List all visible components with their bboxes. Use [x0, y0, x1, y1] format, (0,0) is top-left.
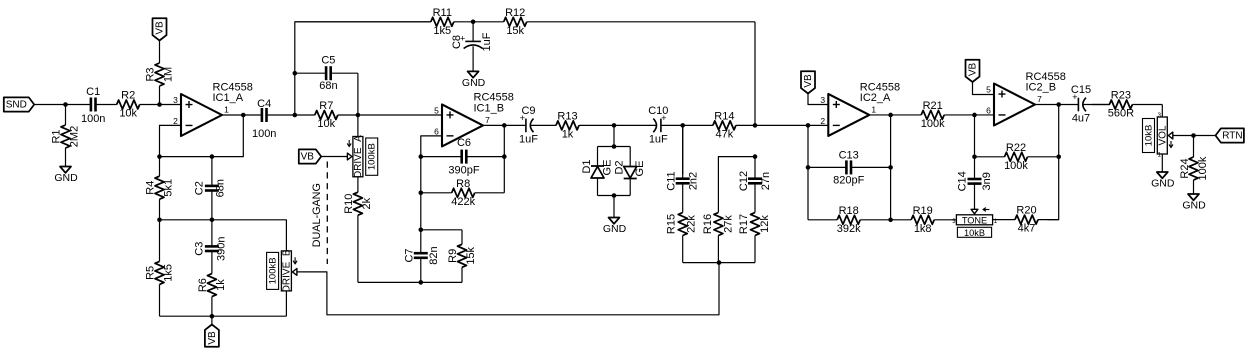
capacitor C11 — [666, 125, 700, 212]
junction — [502, 123, 507, 128]
svg-text:392k: 392k — [837, 223, 861, 235]
resistor R22 — [975, 142, 1059, 172]
dual-gang link — [311, 162, 327, 265]
svg-text:VB: VB — [155, 21, 166, 35]
svg-text:7: 7 — [485, 115, 490, 125]
svg-text:R13: R13 — [557, 110, 577, 122]
wire — [1047, 105, 1058, 220]
svg-text:1uF: 1uF — [649, 133, 668, 145]
junction — [419, 191, 424, 196]
capacitor C7 — [403, 230, 440, 283]
junction — [612, 123, 617, 128]
junction — [210, 314, 215, 319]
wire — [808, 94, 828, 105]
wire — [295, 22, 431, 115]
svg-text:RTN: RTN — [1222, 131, 1242, 142]
svg-text:1k5: 1k5 — [163, 264, 175, 282]
power tag VB — [801, 71, 815, 93]
wire — [683, 262, 755, 264]
wire — [321, 156, 347, 158]
resistor R21 — [891, 100, 975, 130]
capacitor C9 — [504, 105, 556, 145]
junction — [356, 113, 361, 118]
junction — [1191, 133, 1196, 138]
potentiometer DRIVE_B — [267, 249, 298, 292]
svg-text:1: 1 — [224, 105, 229, 115]
resistor R13 — [556, 110, 614, 140]
svg-text:R4: R4 — [145, 181, 157, 195]
junction — [717, 260, 722, 265]
svg-text:GND: GND — [603, 223, 627, 235]
svg-text:10kB: 10kB — [1144, 125, 1155, 147]
pin numbers VOL — [1158, 113, 1162, 159]
svg-text:C6: C6 — [457, 137, 471, 149]
wire — [211, 316, 213, 324]
svg-text:2M2: 2M2 — [69, 126, 81, 147]
svg-text:10k: 10k — [317, 118, 335, 130]
svg-text:GND: GND — [1182, 200, 1206, 212]
svg-text:1k: 1k — [215, 279, 227, 291]
tag SND — [4, 97, 34, 111]
resistor R2 — [96, 90, 160, 120]
wire — [754, 22, 756, 126]
svg-text:C14: C14 — [957, 171, 969, 191]
junction — [806, 123, 811, 128]
junction — [293, 71, 298, 76]
svg-text:6: 6 — [986, 105, 991, 115]
wire — [598, 146, 631, 148]
svg-text:R23: R23 — [1111, 90, 1131, 102]
svg-text:C7: C7 — [403, 248, 415, 262]
svg-text:R3: R3 — [145, 67, 157, 81]
junction — [888, 113, 893, 118]
resistor R1 — [51, 105, 81, 167]
wire — [160, 315, 287, 317]
svg-text:12k: 12k — [759, 215, 771, 233]
svg-text:100n: 100n — [81, 113, 105, 125]
svg-text:SND: SND — [6, 100, 27, 111]
junction — [293, 113, 298, 118]
junction — [63, 102, 68, 107]
tag RTN — [1216, 128, 1244, 142]
svg-text:R22: R22 — [1006, 142, 1026, 154]
capacitor C6 — [421, 137, 505, 177]
svg-text:100kB: 100kB — [367, 143, 378, 170]
ground — [462, 71, 486, 89]
svg-text:100k: 100k — [1197, 156, 1209, 180]
wire — [358, 281, 462, 283]
svg-text:10kB: 10kB — [964, 228, 985, 238]
svg-text:22k: 22k — [686, 215, 698, 233]
svg-text:C13: C13 — [839, 149, 859, 161]
ground — [1182, 194, 1206, 212]
junction — [157, 218, 162, 223]
resistor R16 — [702, 212, 735, 262]
svg-text:VB: VB — [968, 63, 979, 77]
svg-text:C12: C12 — [738, 171, 750, 191]
svg-text:4k7: 4k7 — [1018, 223, 1036, 235]
resistor R23 — [1092, 90, 1162, 120]
svg-text:R12: R12 — [505, 7, 525, 19]
svg-text:R24: R24 — [1179, 158, 1191, 178]
svg-text:R14: R14 — [714, 110, 734, 122]
svg-text:3: 3 — [173, 95, 178, 105]
resistor R5 — [145, 220, 175, 316]
junction — [157, 102, 162, 107]
resistor R3 — [145, 41, 175, 105]
svg-text:7: 7 — [1037, 94, 1042, 104]
svg-text:390n: 390n — [215, 236, 227, 260]
svg-text:C9: C9 — [521, 105, 535, 117]
junction — [1056, 155, 1061, 160]
resistor R17 — [738, 212, 771, 262]
svg-text:560R: 560R — [1108, 108, 1134, 120]
wire — [160, 104, 182, 106]
svg-text:100k: 100k — [921, 118, 945, 130]
svg-text:VOL: VOL — [1157, 125, 1168, 145]
resistor R11 — [295, 7, 473, 37]
svg-text:5k1: 5k1 — [163, 179, 175, 197]
svg-text:R7: R7 — [319, 100, 333, 112]
potentiometer TONE — [952, 208, 998, 238]
svg-text:D1: D1 — [581, 159, 593, 173]
svg-text:C3: C3 — [193, 242, 205, 256]
svg-text:D2: D2 — [614, 160, 626, 174]
svg-text:820pF: 820pF — [833, 175, 864, 187]
wire — [973, 82, 995, 95]
svg-text:C11: C11 — [666, 171, 678, 190]
capacitor C15 — [1059, 84, 1110, 125]
svg-text:GE: GE — [634, 161, 646, 177]
wire — [222, 114, 243, 116]
wire — [358, 114, 442, 116]
wire — [975, 114, 995, 116]
svg-text:C8: C8 — [451, 35, 463, 49]
wire — [1035, 104, 1059, 106]
svg-text:68n: 68n — [319, 80, 337, 92]
op-amp IC1_B — [434, 92, 514, 147]
svg-text:82n: 82n — [428, 246, 440, 264]
svg-text:GE: GE — [602, 160, 614, 176]
ground — [54, 167, 78, 185]
svg-text:R16: R16 — [702, 214, 714, 234]
ground — [1151, 172, 1175, 190]
diode D1 — [581, 147, 614, 196]
resistor R12 — [473, 7, 755, 37]
svg-text:C5: C5 — [321, 55, 335, 67]
svg-text:100kB: 100kB — [268, 257, 279, 284]
diode D2 — [614, 147, 647, 196]
wire — [613, 196, 615, 218]
svg-text:R21: R21 — [923, 100, 943, 112]
junction — [157, 154, 162, 159]
svg-text:DUAL-GANG: DUAL-GANG — [311, 183, 323, 247]
capacitor C12 — [738, 157, 772, 213]
capacitor C3 — [193, 220, 227, 262]
junction — [419, 154, 424, 159]
wire — [503, 157, 505, 193]
resistor R9 — [447, 230, 477, 283]
capacitor C2 — [193, 157, 226, 220]
svg-text:1k8: 1k8 — [914, 223, 932, 235]
wire — [357, 115, 359, 137]
svg-text:15k: 15k — [506, 25, 524, 37]
svg-text:C10: C10 — [648, 105, 668, 117]
svg-text:IC2_B: IC2_B — [1026, 82, 1057, 94]
svg-text:3: 3 — [820, 95, 825, 105]
svg-text:390pF: 390pF — [448, 165, 479, 177]
svg-text:1: 1 — [871, 104, 876, 114]
wire — [755, 124, 828, 126]
wire — [357, 73, 359, 115]
op-amp IC2_B — [986, 71, 1066, 126]
resistor R4 — [145, 157, 175, 220]
wire — [285, 291, 287, 316]
wire — [682, 125, 684, 174]
wire — [1161, 154, 1163, 172]
svg-text:68n: 68n — [214, 179, 226, 197]
svg-text:R10: R10 — [343, 194, 355, 214]
junction — [806, 165, 811, 170]
potentiometer VOL — [1143, 117, 1174, 154]
wire — [718, 157, 755, 213]
wire — [1173, 135, 1216, 137]
svg-text:27n: 27n — [760, 172, 772, 190]
svg-text:R20: R20 — [1016, 205, 1036, 217]
svg-text:IC1_A: IC1_A — [213, 92, 244, 104]
junction — [753, 123, 758, 128]
junction — [241, 113, 246, 118]
resistor R7 — [295, 100, 358, 130]
ground — [603, 218, 627, 236]
resistor R6 — [197, 262, 227, 317]
svg-text:2: 2 — [173, 116, 178, 126]
resistor R8 — [421, 178, 505, 208]
junction — [1056, 102, 1061, 107]
svg-text:VB: VB — [301, 152, 315, 163]
svg-text:C15: C15 — [1071, 84, 1091, 96]
svg-text:C1: C1 — [86, 86, 100, 98]
svg-text:422k: 422k — [451, 196, 475, 208]
svg-text:100k: 100k — [1004, 160, 1028, 172]
junction — [612, 144, 617, 149]
resistor R10 — [343, 177, 373, 283]
junction — [419, 228, 424, 233]
wire — [869, 114, 890, 116]
op-amp IC2_A — [820, 81, 900, 136]
wire — [160, 115, 244, 157]
wire — [890, 115, 892, 220]
capacitor C5 — [295, 55, 358, 92]
svg-text:4u7: 4u7 — [1072, 113, 1090, 125]
svg-text:C4: C4 — [257, 98, 271, 110]
svg-text:3n9: 3n9 — [981, 172, 993, 190]
svg-text:2n2: 2n2 — [688, 172, 700, 190]
svg-text:2: 2 — [820, 116, 825, 126]
wire — [160, 125, 182, 156]
svg-text:R9: R9 — [447, 249, 459, 263]
junction — [471, 20, 476, 25]
svg-text:R19: R19 — [913, 205, 933, 217]
svg-text:R18: R18 — [839, 205, 859, 217]
svg-text:R6: R6 — [197, 278, 209, 292]
svg-text:IC2_A: IC2_A — [860, 92, 891, 104]
wire — [598, 195, 631, 197]
svg-text:R1: R1 — [51, 129, 63, 143]
svg-text:6: 6 — [434, 126, 439, 136]
svg-text:R2: R2 — [121, 90, 135, 102]
svg-text:GND: GND — [1151, 178, 1175, 190]
resistor R18 — [808, 205, 891, 235]
capacitor C10 — [614, 105, 683, 145]
svg-text:1uF: 1uF — [519, 133, 538, 145]
svg-text:VB: VB — [207, 331, 218, 345]
svg-text:TONE: TONE — [962, 215, 987, 225]
svg-text:GND: GND — [54, 172, 78, 184]
wire — [297, 263, 719, 315]
svg-text:1M: 1M — [163, 67, 175, 82]
capacitor C1 — [81, 86, 105, 125]
junction — [502, 154, 507, 159]
tag VB — [299, 149, 321, 163]
wire — [483, 124, 504, 126]
junction — [680, 123, 685, 128]
svg-text:R5: R5 — [145, 266, 157, 280]
capacitor C13 — [808, 149, 891, 186]
wire — [34, 104, 91, 106]
capacitor C14 — [957, 157, 994, 209]
junction — [888, 165, 893, 170]
capacitor C8 — [451, 22, 493, 72]
wire — [421, 136, 442, 230]
svg-text:R17: R17 — [738, 214, 750, 234]
wire — [807, 167, 809, 219]
potentiometer DRIVE_A — [347, 135, 378, 178]
junction — [419, 280, 424, 285]
junction — [753, 154, 758, 159]
resistor R14 — [683, 110, 755, 140]
wire — [421, 229, 462, 231]
junction — [210, 218, 215, 223]
svg-text:IC1_B: IC1_B — [474, 103, 505, 115]
svg-text:GND: GND — [462, 77, 486, 89]
svg-text:10k: 10k — [119, 108, 137, 120]
junction — [612, 193, 617, 198]
resistor R24 — [1179, 136, 1209, 195]
svg-text:DRIVE_A: DRIVE_A — [353, 135, 364, 178]
wire — [503, 125, 505, 156]
svg-text:47k: 47k — [716, 128, 734, 140]
resistor R20 — [993, 205, 1059, 235]
svg-text:1k: 1k — [562, 128, 574, 140]
junction — [972, 155, 977, 160]
junction — [888, 218, 893, 223]
svg-text:VB: VB — [803, 74, 814, 88]
svg-text:1k5: 1k5 — [433, 25, 451, 37]
wire — [974, 115, 976, 157]
junction — [210, 154, 215, 159]
wire — [160, 220, 287, 251]
resistor R19 — [891, 205, 957, 235]
op-amp IC1_A — [173, 81, 253, 136]
svg-text:C2: C2 — [193, 181, 205, 195]
power tag VB — [966, 60, 980, 82]
svg-text:R8: R8 — [456, 178, 470, 190]
junction — [972, 113, 977, 118]
capacitor C4 — [243, 98, 294, 140]
wire — [1161, 105, 1163, 118]
power tag VB — [205, 325, 219, 347]
svg-text:15k: 15k — [465, 246, 477, 264]
svg-text:DRIVE_B: DRIVE_B — [281, 249, 292, 292]
svg-text:R15: R15 — [666, 214, 678, 234]
wire — [807, 125, 809, 167]
resistor R15 — [666, 212, 698, 262]
svg-text:R11: R11 — [433, 7, 452, 19]
svg-text:100n: 100n — [252, 128, 276, 140]
svg-text:1uF: 1uF — [481, 32, 493, 51]
svg-text:5: 5 — [434, 105, 439, 115]
svg-text:27k: 27k — [722, 215, 734, 233]
power tag VB — [153, 18, 167, 40]
svg-text:2k: 2k — [361, 197, 373, 209]
svg-text:5: 5 — [986, 85, 991, 95]
wire — [613, 125, 615, 146]
